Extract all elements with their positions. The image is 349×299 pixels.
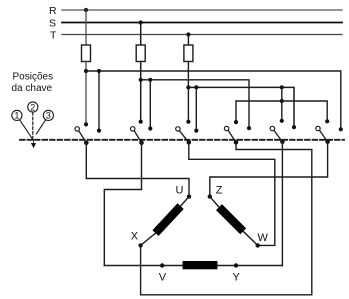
winding Z-W lead lower (243, 231, 258, 245)
svg-text:Posições: Posições (13, 72, 54, 83)
node T bus tap aux (280, 85, 284, 89)
svg-text:U: U (176, 185, 184, 197)
node S tap (139, 20, 143, 24)
terminal U (187, 194, 191, 198)
node pole 5 right contact (292, 125, 296, 129)
contact circle pole 5 (270, 126, 274, 130)
wire pole 2 to V loop (104, 143, 141, 266)
node pole 4 right contact (247, 126, 251, 130)
node pole 3 right contact (194, 129, 198, 133)
wire R bus to pole 1 right contact (98, 71, 100, 131)
phase line R (62, 9, 342, 11)
node pole 2 right contact (148, 126, 152, 130)
bus wire aux to poles 4 and 6 centre contacts (236, 101, 327, 122)
winding Z-W lead (210, 197, 219, 208)
svg-text:X: X (131, 231, 139, 243)
wire R to fuse F1 (85, 10, 87, 45)
lever arrow (31, 139, 36, 148)
lever to position 3 (36, 120, 45, 134)
node aux junction (280, 99, 284, 103)
wire S to fuse F2 (140, 23, 142, 46)
fuse F3 (184, 45, 193, 62)
node pole 5 centre contact (280, 119, 284, 123)
blade pole 1 (79, 131, 87, 143)
wire T bus to pole 3 right contact (195, 87, 197, 130)
bus wire S phase (141, 80, 249, 128)
winding U-X lead lower (141, 233, 156, 245)
switch coupling dashed bar (20, 139, 344, 141)
pivot pole 2 (139, 141, 144, 146)
wire pole 1 to U (86, 143, 189, 197)
switch position 2 (28, 102, 38, 112)
node pole 6 right contact (339, 127, 343, 131)
wire pole 6 to Z (210, 142, 328, 197)
node pole 6 centre contact (325, 119, 329, 123)
svg-text:Y: Y (233, 272, 241, 284)
node pole 1 centre contact (84, 122, 88, 126)
node T tap (186, 32, 190, 36)
contact circle pole 3 (176, 127, 180, 131)
winding V-Y body (183, 261, 218, 269)
blade pole 5 (274, 130, 282, 141)
blade pole 4 (228, 130, 236, 142)
wire pole 4 to X via bottom (141, 142, 312, 294)
node pole 2 centre contact (139, 120, 143, 124)
node pole 4 centre contact (234, 120, 238, 124)
node R bus tap pole1 (97, 69, 101, 73)
winding U-X lead (181, 197, 189, 206)
lever to position 2 (32, 112, 34, 138)
wire pole 5 to Y (281, 142, 283, 266)
pivot pole 5 (280, 140, 285, 145)
node pole 1 right contact (97, 129, 101, 133)
contact circle pole 1 (75, 127, 79, 131)
phase line T (62, 34, 342, 36)
wire fuse F2 to pole 2 centre contact (140, 62, 142, 122)
node pole 3 centre contact (186, 120, 190, 124)
wire pole 3 to W (189, 142, 275, 245)
svg-text:3: 3 (46, 111, 51, 121)
fuse F2 (136, 45, 145, 62)
pivot pole 4 (234, 140, 239, 145)
svg-text:S: S (49, 18, 56, 30)
winding Z-W body (216, 204, 246, 234)
wire T to fuse F3 (187, 35, 189, 46)
node R tap (84, 8, 88, 12)
contact circle pole 2 (131, 127, 135, 131)
node T bus tap pole3 (194, 85, 198, 89)
wire S bus to pole 2 right contact (149, 80, 151, 129)
wire V-Y winding line (104, 265, 282, 267)
blade pole 2 (134, 131, 141, 143)
contact circle pole 6 (316, 126, 320, 130)
phase line S (62, 22, 342, 24)
wire fuse F1 to pole 1 centre contact (85, 62, 87, 125)
svg-text:T: T (50, 30, 57, 42)
node S bus tap pole2 (148, 78, 152, 82)
blade pole 6 (320, 130, 328, 141)
terminal W (256, 243, 260, 247)
node S bus junction (139, 78, 143, 82)
lever to position 1 (20, 120, 33, 139)
svg-text:W: W (258, 232, 269, 244)
bus wire R phase (86, 71, 341, 129)
pivot pole 3 (187, 140, 192, 145)
pivot pole 6 (325, 140, 330, 145)
terminal Z (208, 194, 212, 198)
bus wire T phase (188, 87, 294, 127)
svg-text:da chave: da chave (12, 83, 53, 94)
terminal Y (234, 263, 238, 267)
svg-text:Z: Z (216, 185, 223, 197)
svg-text:V: V (159, 272, 167, 284)
wire T bus to pole 5 centre contact (281, 87, 283, 120)
contact circle pole 4 (224, 126, 228, 130)
fuse F1 (82, 45, 91, 62)
blade pole 3 (180, 131, 189, 143)
pivot pole 1 (84, 141, 89, 146)
switch position 1 (12, 110, 22, 120)
switch position 3 (43, 110, 53, 120)
node R bus junction (84, 69, 88, 73)
terminal X (138, 243, 142, 247)
terminal V (160, 263, 164, 267)
svg-text:R: R (49, 5, 57, 17)
winding U-X body (152, 203, 183, 236)
svg-text:2: 2 (30, 102, 35, 112)
wire fuse F3 to pole 3 centre contact (187, 62, 189, 122)
node T bus junction (186, 85, 190, 89)
svg-text:1: 1 (14, 111, 19, 121)
